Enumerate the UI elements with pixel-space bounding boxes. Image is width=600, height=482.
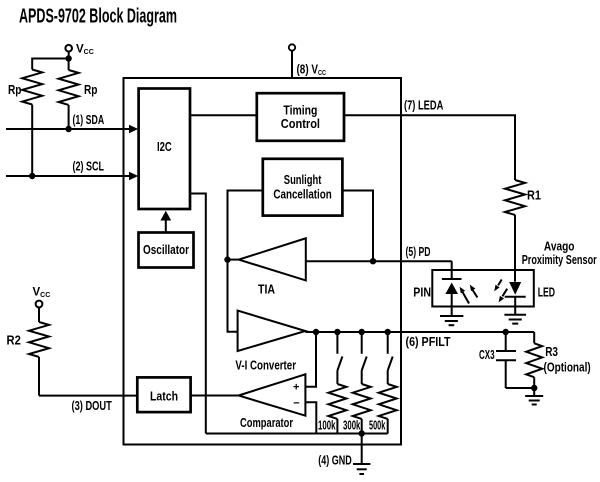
- wire: I2C to Timing Control: [190, 114, 257, 116]
- svg-text:Rp: Rp: [8, 83, 22, 97]
- resistor 500k: [369, 384, 397, 434]
- node: R3 ground junction: [531, 385, 537, 391]
- node: SDA junction: [65, 126, 71, 132]
- svg-text:R3: R3: [545, 345, 558, 359]
- wire: TIA tip stub: [228, 259, 239, 261]
- wire: CX3 bottom to R3 bottom: [506, 387, 535, 389]
- wire: PFILT line: [305, 331, 534, 333]
- node: CX3 junction: [503, 329, 509, 335]
- wire: oscillator to I2C arrow: [160, 211, 171, 233]
- svg-text:(7) LEDA: (7) LEDA: [404, 98, 443, 112]
- node: Vcc junction: [65, 55, 71, 61]
- node: switch 100k junction: [334, 329, 340, 335]
- Timing Control block: [257, 93, 344, 141]
- resistor 100k: [318, 384, 346, 434]
- svg-text:500k: 500k: [369, 419, 385, 433]
- svg-text:300k: 300k: [343, 419, 360, 433]
- svg-text:Comparator: Comparator: [240, 416, 293, 430]
- wire: PD line (TIA input from photodiode): [306, 260, 452, 262]
- wire: bottom rail (I2C ref / resistor commons): [206, 433, 388, 435]
- Avago proximity sensor module box: [432, 240, 596, 307]
- node: GND rail junction: [359, 430, 365, 436]
- svg-text:(2) SCL: (2) SCL: [73, 159, 105, 173]
- wire: PD down to PIN photodiode: [451, 261, 453, 279]
- I2C block U1: [139, 89, 190, 210]
- op-amp TIA: [239, 238, 306, 296]
- resistor R2: [7, 322, 50, 357]
- switch S2: [362, 332, 367, 384]
- svg-text:Cancellation: Cancellation: [273, 187, 331, 201]
- svg-text:+: +: [293, 382, 299, 394]
- wire: DOUT line: [39, 395, 137, 397]
- op-amp V-I Converter: [235, 311, 305, 373]
- svg-text:Control: Control: [281, 117, 320, 131]
- wire: latch to comparator: [191, 395, 239, 397]
- node: switch 500k junction: [385, 329, 391, 335]
- wire: SCL line: [6, 175, 131, 177]
- svg-text:APDS-9702 Block Diagram: APDS-9702 Block Diagram: [19, 6, 177, 28]
- wire: TIA node down to V-I converter input: [228, 260, 238, 332]
- light arrows out of LED: [494, 280, 507, 303]
- wire: comparator - input to rail: [305, 402, 316, 433]
- photodiode PIN: [413, 279, 461, 316]
- svg-text:100k: 100k: [318, 419, 336, 433]
- ground (LED): [504, 315, 526, 324]
- wire: rail to ground: [361, 434, 363, 464]
- wire: Sunlight Cancellation right to PD node: [342, 191, 373, 262]
- svg-text:Rp: Rp: [84, 83, 98, 97]
- IC outer boundary box: [124, 78, 402, 445]
- ground (PIN): [440, 316, 463, 325]
- svg-text:(3) DOUT: (3) DOUT: [72, 399, 113, 413]
- svg-text:R2: R2: [7, 334, 21, 348]
- Vcc terminal (DOUT pull-up): [33, 287, 51, 323]
- capacitor CX3: [479, 332, 516, 388]
- wire: I2C down-feed: [190, 194, 206, 434]
- node: TIA output junction: [224, 256, 230, 262]
- svg-text:Proximity Sensor: Proximity Sensor: [522, 253, 597, 267]
- wire: Vcc to left pull-up: [32, 59, 68, 70]
- svg-text:(5) PD: (5) PD: [406, 245, 431, 259]
- wire: LEDA line (Timing Control to R1): [344, 115, 515, 180]
- svg-text:CX3: CX3: [479, 348, 495, 362]
- svg-text:(6) PFILT: (6) PFILT: [406, 335, 451, 349]
- Latch block: [137, 377, 190, 412]
- svg-text:R1: R1: [527, 189, 541, 203]
- Oscillator block: [139, 233, 194, 268]
- node: switch 300k junction: [359, 329, 365, 335]
- ground (chip GND): [353, 464, 370, 474]
- wire: comparator + input to PFILT: [305, 332, 316, 387]
- ground (R3/CX3): [525, 388, 543, 405]
- svg-text:(1) SDA: (1) SDA: [73, 113, 105, 127]
- svg-text:TIA: TIA: [258, 282, 275, 297]
- wire: left Rp down to SCL: [31, 105, 33, 177]
- svg-text:Latch: Latch: [150, 389, 178, 403]
- node: comparator+ junction: [313, 329, 319, 335]
- wire: R2 to DOUT: [38, 357, 40, 396]
- wire: right Rp down to SDA: [68, 105, 70, 129]
- node: PD junction: [370, 258, 376, 264]
- svg-text:(Optional): (Optional): [544, 361, 591, 375]
- wire: R1 to LED: [514, 215, 516, 282]
- pin (2) SCL arrowhead: [129, 172, 138, 180]
- pin (8) Vcc terminal: [289, 44, 326, 78]
- resistor R1: [505, 180, 541, 215]
- wire: SDA line: [6, 128, 131, 130]
- svg-text:Sunlight: Sunlight: [284, 173, 322, 187]
- svg-text:Oscillator: Oscillator: [143, 243, 189, 257]
- resistor 300k: [343, 384, 371, 434]
- node: SCL junction: [29, 173, 35, 179]
- pin (1) SDA arrowhead: [129, 125, 138, 133]
- svg-text:(4) GND: (4) GND: [318, 453, 352, 467]
- switch S1: [337, 332, 342, 384]
- svg-text:Avago: Avago: [544, 240, 575, 254]
- svg-text:−: −: [293, 397, 299, 409]
- Sunlight Cancellation block: [263, 159, 343, 216]
- svg-text:Timing: Timing: [283, 103, 317, 117]
- switch S3: [388, 332, 393, 384]
- wire: Sunlight Cancellation left to TIA output node: [228, 191, 263, 260]
- svg-text:LED: LED: [538, 286, 555, 300]
- svg-text:V-I Converter: V-I Converter: [235, 359, 296, 373]
- resistor R3 (optional): [526, 332, 591, 388]
- Vcc terminal (pull-up supply): [65, 44, 93, 59]
- op-amp Comparator: [239, 374, 306, 430]
- svg-text:PIN: PIN: [413, 286, 431, 300]
- LED D1: [505, 282, 555, 315]
- resistor Rp (right): [59, 59, 98, 105]
- light arrows into PIN: [460, 285, 478, 304]
- svg-text:I2C: I2C: [157, 139, 172, 154]
- resistor Rp (left): [8, 70, 42, 105]
